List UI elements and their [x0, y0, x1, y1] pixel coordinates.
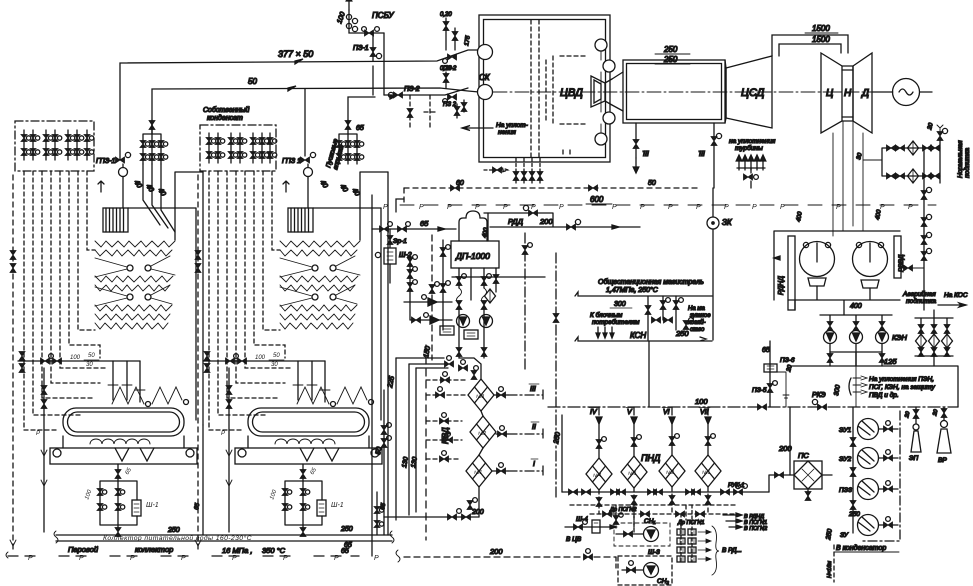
wire shaft centerline: [493, 91, 893, 93]
svg-text:Паровой: Паровой: [68, 545, 99, 554]
svg-text:II: II: [532, 424, 536, 431]
svg-text:250: 250: [167, 527, 180, 534]
svg-text:Р: Р: [419, 204, 424, 211]
extraction stub II: [496, 426, 543, 439]
heater ПНД2: [659, 455, 685, 487]
svg-text:III: III: [699, 151, 705, 158]
ejector ЗУ: [858, 515, 899, 536]
svg-text:Р: Р: [283, 555, 288, 562]
svg-text:На КОС: На КОС: [944, 292, 968, 299]
valve ГПЗ-1 unit 2: [301, 89, 316, 178]
wire bypass line 50: [152, 86, 479, 134]
valve on drain line: [451, 185, 460, 191]
wire КСН header: [575, 292, 712, 296]
svg-text:КЭН: КЭН: [892, 333, 908, 342]
svg-text:Ц: Ц: [826, 88, 833, 99]
wire pumps to ПВД3: [456, 348, 487, 380]
valve РКЭ: [812, 399, 826, 410]
svg-text:нения: нения: [498, 129, 516, 136]
svg-text:ЗУ: ЗУ: [840, 532, 849, 539]
svg-text:125: 125: [884, 357, 897, 366]
generator: [872, 79, 932, 106]
svg-text:ДП-1000: ДП-1000: [455, 251, 490, 261]
feed pump 1: [440, 315, 470, 336]
svg-text:ПЗ 2: ПЗ 2: [443, 102, 457, 108]
valve Эр-1 + Ш-2: [375, 229, 396, 283]
vessel ВР: [937, 407, 951, 453]
svg-text:Р: Р: [531, 204, 536, 211]
svg-text:Р: Р: [503, 204, 508, 211]
svg-text:ЭУ1: ЭУ1: [839, 427, 852, 434]
svg-text:Р: Р: [696, 204, 701, 211]
КЭН drops to 125: [827, 352, 885, 366]
svg-text:ПЗ-1: ПЗ-1: [353, 45, 369, 52]
svg-text:ГПЗ-1: ГПЗ-1: [96, 158, 116, 165]
wire КЭН down to 125 and РКЭ: [855, 352, 857, 407]
valve drain: [407, 109, 413, 118]
svg-text:600: 600: [590, 195, 604, 204]
svg-text:Р: Р: [612, 204, 617, 211]
svg-text:Н: Н: [844, 88, 852, 99]
svg-text:ПВД и др.: ПВД и др.: [869, 391, 899, 399]
bottom dashed drop: [833, 545, 835, 582]
tower drop pipes unit1: [143, 164, 175, 232]
svg-text:РКЭ: РКЭ: [812, 392, 826, 399]
turbine stop-valve box outer: [479, 15, 610, 162]
svg-text:ПЗ-6: ПЗ-6: [780, 357, 795, 364]
svg-text:№4: №4: [593, 473, 601, 479]
wire ПСБУ drop pipes: [373, 33, 384, 95]
svg-text:№3: №3: [476, 394, 484, 400]
feed water collector: [54, 531, 394, 543]
riser unit1 to collector: [202, 425, 204, 535]
wire condensate dash-dot main 100: [548, 406, 958, 408]
seal supply branches right: [882, 125, 948, 183]
svg-text:В ЦВ: В ЦВ: [566, 536, 582, 543]
svg-text:Р: Р: [752, 204, 757, 211]
svg-text:турбины: турбины: [735, 144, 763, 152]
frame top: [774, 231, 900, 300]
svg-text:ПЗ-5: ПЗ-5: [752, 387, 767, 394]
svg-text:КСН: КСН: [630, 331, 646, 340]
svg-text:Р: Р: [130, 555, 135, 562]
drums bottom bus: [788, 286, 900, 322]
deaerator outlet piping: [456, 268, 499, 348]
ejector ЭУ1: [858, 419, 899, 440]
svg-text:ПЭ3: ПЭ3: [839, 487, 852, 494]
valve ЗК: [707, 188, 719, 340]
svg-text:III: III: [643, 151, 649, 158]
svg-text:250: 250: [848, 511, 860, 518]
condensate box unit 1: [15, 121, 94, 171]
svg-text:60: 60: [456, 180, 464, 187]
svg-text:Р: Р: [880, 204, 885, 211]
svg-text:подпитка: подпитка: [963, 148, 971, 178]
svg-text:К блочным: К блочным: [590, 311, 623, 319]
dashed internals of СК box: [531, 20, 585, 157]
drum 1: [800, 242, 835, 287]
svg-text:РУК-1: РУК-1: [728, 483, 744, 489]
heater ПНД4: [586, 458, 612, 490]
svg-text:200: 200: [489, 547, 503, 556]
svg-text:Эр-1: Эр-1: [393, 238, 407, 245]
extraction risers IV-VII: [596, 407, 715, 458]
svg-text:0,20: 0,20: [440, 12, 452, 18]
svg-text:65: 65: [420, 219, 429, 228]
HP turbine casing outer: [623, 60, 725, 123]
seal users text block: [849, 376, 867, 395]
seal steam header arrows: [736, 155, 766, 188]
wire 125 header: [790, 366, 958, 407]
wire РДД line: [484, 205, 640, 241]
crossover pipes 1500: [772, 35, 848, 56]
left main vertical: [371, 195, 373, 556]
svg-text:№2: №2: [666, 470, 674, 476]
pump СН-2 group: [618, 556, 672, 585]
svg-text:ПСБУ: ПСБУ: [372, 11, 394, 20]
svg-text:50: 50: [648, 180, 656, 187]
drum 2: [853, 242, 888, 289]
Ш-4 drain: [565, 520, 616, 533]
svg-text:65: 65: [762, 347, 770, 354]
svg-text:ПНД: ПНД: [641, 453, 661, 463]
svg-text:РДНД: РДНД: [778, 276, 785, 295]
heater ПНД3: [621, 456, 647, 488]
svg-text:ЭП: ЭП: [909, 455, 919, 462]
svg-text:377 × 50: 377 × 50: [278, 49, 313, 59]
svg-text:на уплотнения: на уплотнения: [729, 138, 776, 145]
deaerator column head: [459, 211, 487, 241]
heater ПНД1: [695, 455, 721, 487]
left standpipe РДНД: [788, 236, 795, 310]
right column with valves: [901, 150, 932, 310]
svg-text:ство: ство: [690, 327, 705, 333]
svg-text:250: 250: [675, 329, 689, 338]
svg-text:400: 400: [850, 303, 862, 310]
deaerator suction network: [404, 235, 545, 360]
pump СН-1: [614, 514, 670, 546]
valve III left below casing: [633, 123, 639, 173]
svg-text:Р: Р: [334, 555, 339, 562]
wire steam bus 600 (P line): [396, 199, 936, 212]
valves near unit2 riser: [374, 492, 384, 535]
vessel ЭП: [911, 407, 921, 452]
wire valve connections: [600, 51, 602, 133]
svg-text:ГПЗ 1: ГПЗ 1: [282, 158, 301, 165]
svg-text:СК: СК: [479, 73, 491, 82]
svg-text:50: 50: [375, 446, 383, 455]
svg-text:ПЗ-2: ПЗ-2: [404, 86, 420, 93]
ПС connections: [769, 472, 832, 501]
label Р repeats: [28, 555, 379, 562]
valve on 100 line: [758, 404, 767, 410]
ejector ЭУ2: [858, 448, 899, 469]
svg-text:Ш-3: Ш-3: [648, 549, 660, 556]
svg-text:100: 100: [695, 397, 708, 406]
svg-text:III: III: [530, 386, 536, 393]
deaerator tank: [451, 241, 499, 268]
svg-text:0,20: 0,20: [440, 66, 452, 72]
boiler unit 1: [10, 171, 203, 552]
svg-text:Р: Р: [668, 204, 673, 211]
LP turbine ЦНД bowtie: [821, 53, 872, 133]
svg-text:Р: Р: [232, 555, 237, 562]
КСН valves: [645, 296, 693, 340]
HP turbine inlet nozzle: [591, 76, 612, 107]
main condensate bus: [562, 483, 769, 495]
svg-text:ВР: ВР: [938, 457, 947, 464]
svg-text:16 МПа ,: 16 МПа ,: [222, 546, 252, 555]
pumps discharge bus: [830, 352, 882, 366]
svg-text:Р: Р: [836, 204, 841, 211]
svg-text:конденсат: конденсат: [207, 114, 243, 122]
svg-text:На уплот-: На уплот-: [496, 122, 529, 129]
valve block lower right of line B: [443, 72, 467, 118]
В РД drain boxes: [677, 505, 719, 575]
wire ЦНД exhaust drops: [833, 121, 863, 236]
outlet arrows В РДНД etc: [723, 513, 742, 529]
wire КСН lower header: [575, 337, 712, 341]
ejector ПЭ3: [858, 479, 899, 500]
svg-text:1500: 1500: [812, 24, 830, 33]
ПВД outlet: [384, 498, 479, 535]
svg-text:Нормальная: Нормальная: [957, 140, 964, 178]
triple filter columns: [915, 310, 953, 366]
svg-text:Ш-4: Ш-4: [576, 516, 588, 523]
svg-text:350 °С: 350 °С: [262, 546, 286, 555]
svg-text:200: 200: [471, 509, 484, 516]
svg-text:хозяй-: хозяй-: [687, 319, 706, 326]
wire main steam line 377x50: [120, 50, 479, 160]
valve block upper right of line A: [443, 18, 458, 63]
svg-text:Общестанционная магистраль: Общестанционная магистраль: [598, 278, 704, 286]
svg-text:65: 65: [356, 125, 364, 132]
svg-text:1500: 1500: [812, 35, 830, 44]
tower riser unit1: [151, 125, 153, 129]
svg-text:Р: Р: [640, 204, 645, 211]
svg-text:№1: №1: [702, 470, 710, 476]
svg-text:Др ПСГN2: Др ПСГN2: [609, 507, 636, 513]
svg-text:ЗК: ЗК: [722, 218, 733, 227]
svg-text:250: 250: [663, 45, 678, 54]
svg-text:200: 200: [539, 217, 553, 226]
pump КЭН 2: [850, 322, 863, 353]
extraction stub III: [494, 387, 543, 400]
svg-text:VII: VII: [700, 409, 709, 416]
wire heater chain: [479, 411, 483, 517]
valve ПЗ-2: [388, 92, 402, 98]
svg-text:СН₂: СН₂: [657, 578, 669, 585]
svg-text:Р: Р: [79, 555, 84, 562]
ПСБУ assembly: [346, 0, 384, 36]
svg-text:В конденсатор: В конденсатор: [836, 544, 886, 552]
svg-text:СН₁: СН₁: [644, 518, 655, 525]
svg-text:ПС: ПС: [798, 451, 809, 460]
svg-text:Н=16м: Н=16м: [827, 561, 833, 578]
svg-text:65: 65: [341, 548, 349, 555]
feed pump 2: [464, 315, 493, 340]
svg-text:250: 250: [340, 526, 353, 533]
injection tower unit 2: [336, 120, 364, 164]
label Р repeats on bus: [383, 204, 913, 211]
steam collector dashed: [6, 550, 400, 562]
HP turbine casing inner: [627, 64, 722, 120]
injection tower unit 1: [140, 120, 168, 164]
svg-text:Р: Р: [724, 204, 729, 211]
turbine stop-valve box inner: [484, 20, 606, 158]
heater ПВД3: [468, 379, 494, 411]
wire seal collect line: [863, 148, 882, 160]
svg-text:Р: Р: [447, 204, 452, 211]
svg-text:№1: №1: [474, 470, 482, 476]
dash-dot drop lines: [524, 233, 526, 370]
wire deaerator inlet 65: [372, 222, 456, 232]
svg-text:50: 50: [248, 77, 257, 86]
svg-text:В ПСГN2: В ПСГN2: [744, 526, 767, 532]
svg-text:VI: VI: [663, 409, 670, 416]
riser unit2 to collector: [387, 425, 389, 535]
valve ПЗ-1: [370, 48, 382, 59]
svg-text:Р: Р: [475, 204, 480, 211]
svg-text:Р: Р: [374, 555, 379, 562]
wire bypass to СК2: [384, 88, 468, 99]
ЦВД bottom drain valves: [484, 158, 543, 184]
svg-text:потребителям: потребителям: [592, 318, 640, 326]
svg-text:Р: Р: [383, 204, 388, 211]
svg-text:коллектор: коллектор: [135, 545, 173, 554]
svg-text:зутное: зутное: [689, 313, 711, 319]
svg-text:Р: Р: [559, 204, 564, 211]
heater ПВД2: [470, 416, 496, 448]
svg-text:подпитка: подпитка: [906, 297, 936, 305]
svg-text:ЦВД: ЦВД: [560, 87, 583, 99]
consumer arrows: [596, 327, 614, 338]
svg-text:№2: №2: [478, 431, 486, 437]
svg-text:300: 300: [614, 301, 626, 308]
dashed vertical: [425, 345, 427, 540]
svg-text:1,47МПа, 250°С: 1,47МПа, 250°С: [606, 286, 659, 294]
upper valve cluster: [426, 356, 468, 462]
svg-text:ЦСД: ЦСД: [741, 87, 765, 99]
valve ГПЗ-1 unit 1: [116, 152, 131, 178]
svg-text:Р: Р: [181, 555, 186, 562]
condensate box unit 2: [200, 125, 277, 171]
svg-text:Р: Р: [28, 555, 33, 562]
svg-text:ПСГ, КЭН, на защиту: ПСГ, КЭН, на защиту: [869, 384, 935, 391]
svg-text:Собственный: Собственный: [203, 106, 249, 114]
drain network dashed: [570, 487, 735, 528]
extraction stub I: [492, 463, 543, 476]
svg-text:Р: Р: [780, 204, 785, 211]
right dash-dot return: [860, 411, 900, 541]
svg-text:ЭУ2: ЭУ2: [839, 456, 852, 463]
svg-text:Д: Д: [861, 88, 869, 99]
svg-text:В РД...: В РД...: [722, 547, 742, 554]
svg-text:РДД: РДД: [508, 217, 524, 226]
wire inlet wedge: [612, 72, 623, 111]
wire turbine drain dashed line: [404, 188, 700, 205]
valve III right below casing: [711, 123, 722, 188]
pump КЭН 3: [876, 322, 889, 353]
svg-text:Р: Р: [908, 204, 913, 211]
svg-text:I: I: [533, 461, 535, 468]
stop valve СК lower: [478, 85, 493, 100]
svg-text:№3: №3: [628, 471, 636, 477]
svg-text:Аварийная: Аварийная: [902, 290, 936, 298]
pump КЭН 1: [824, 322, 837, 353]
IP turbine ЦСД: [725, 56, 772, 128]
label на уплотнения (left arrow): [462, 126, 493, 131]
drain dashed 200: [404, 549, 616, 570]
svg-text:250: 250: [663, 55, 678, 64]
svg-text:На уплотнения ПЭН,: На уплотнения ПЭН,: [869, 376, 934, 383]
boiler unit 2: [195, 171, 388, 552]
svg-text:На ма: На ма: [688, 306, 705, 312]
stop valve СК upper: [478, 45, 493, 60]
heater ПВД1: [466, 455, 492, 487]
wire dashed drain drop: [410, 95, 436, 130]
bypass verticals: [381, 358, 448, 520]
svg-text:Коллектор питательной воды: Коллектор питательной воды 160-230°С: [103, 534, 252, 542]
control valves circles right side: [595, 39, 607, 51]
right standpipe РВВД: [894, 236, 901, 278]
